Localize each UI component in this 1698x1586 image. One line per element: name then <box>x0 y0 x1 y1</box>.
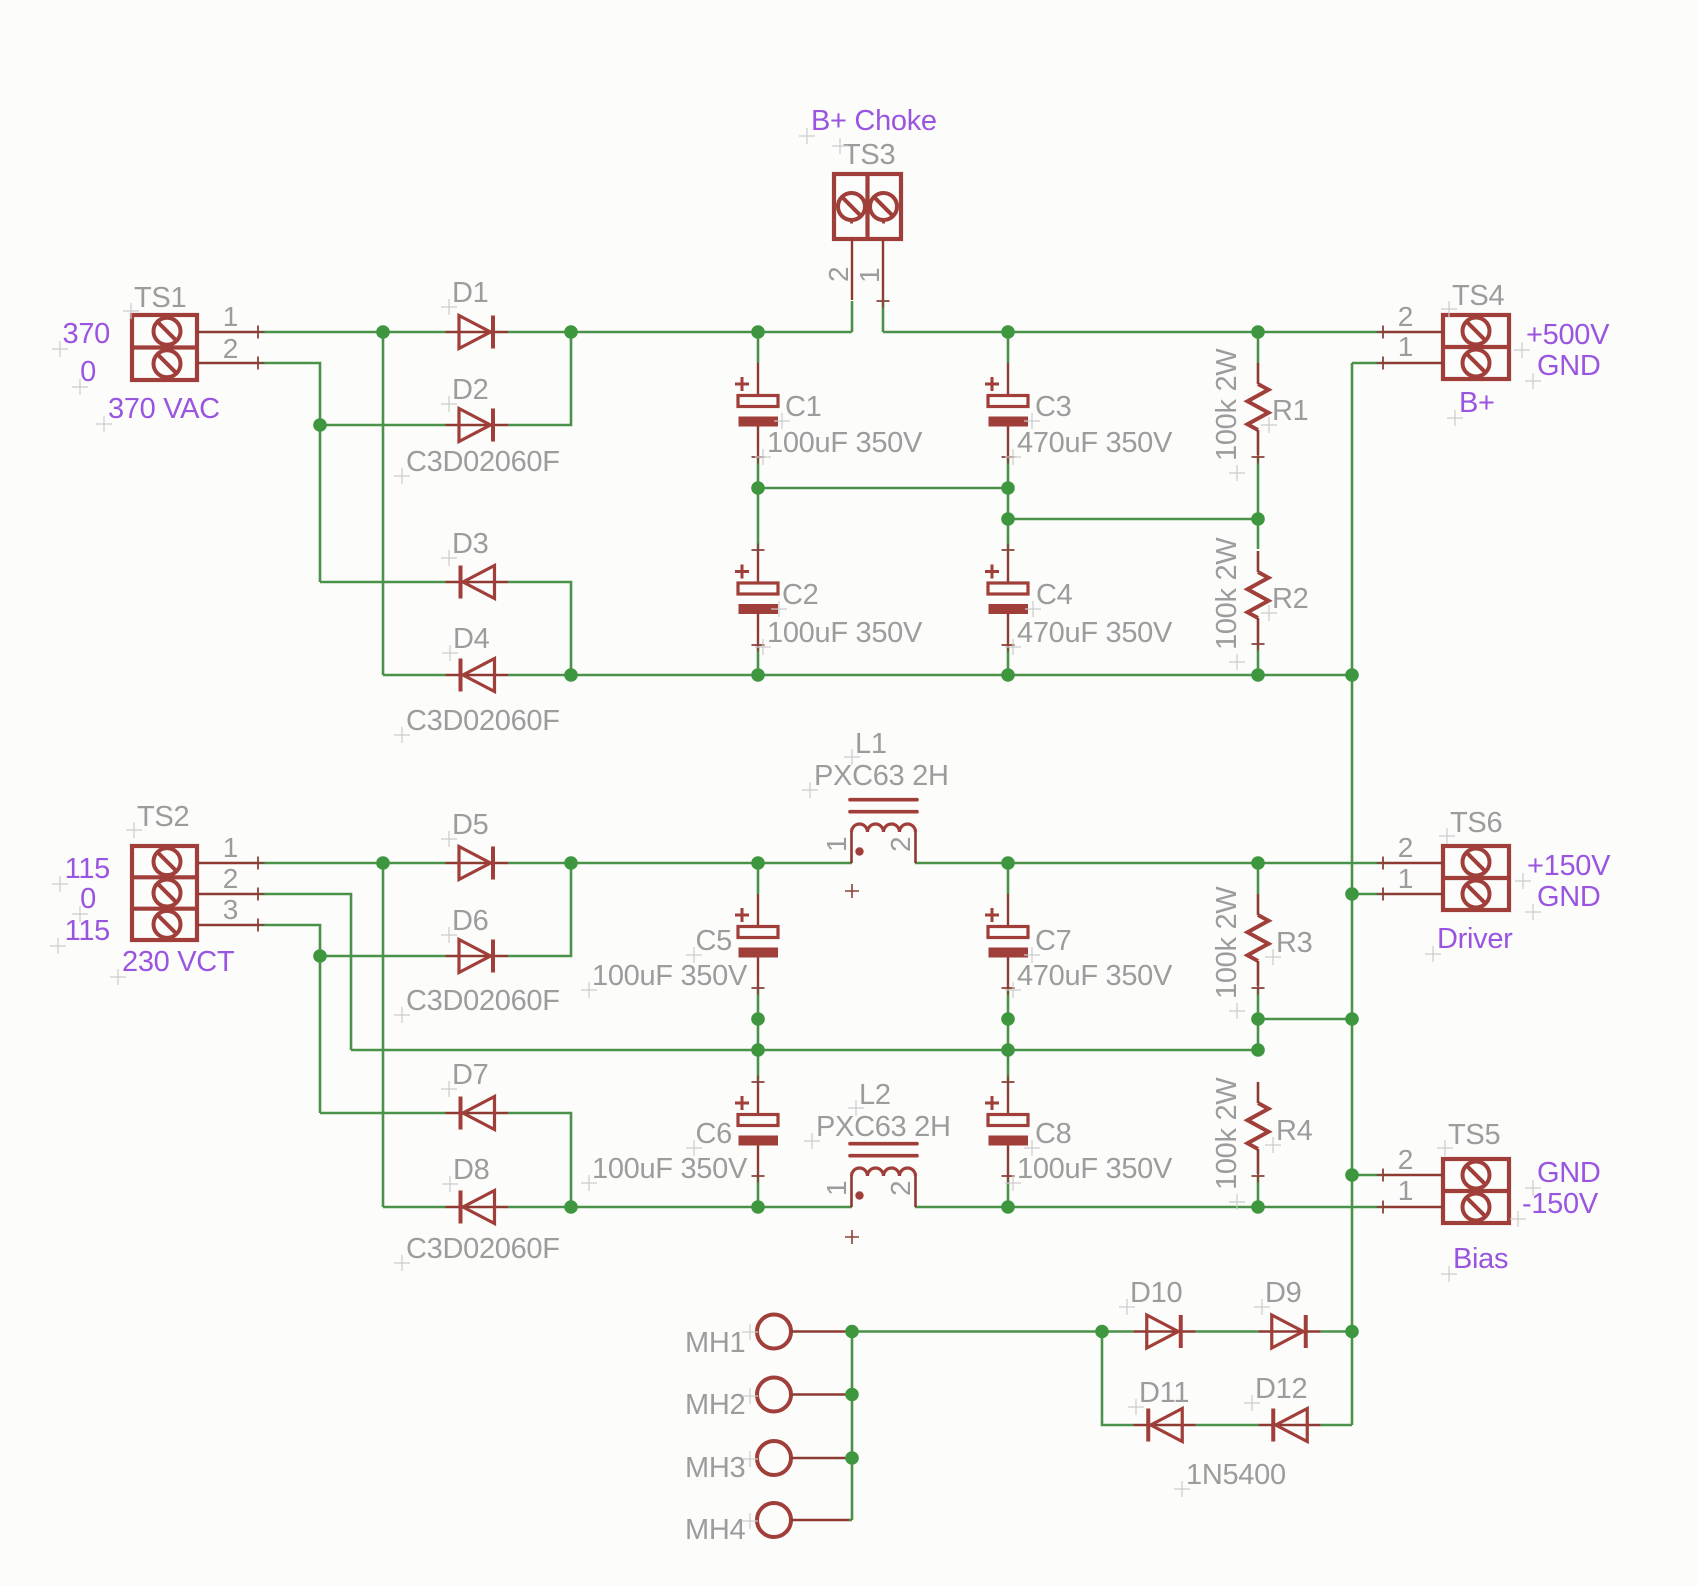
label +150V <box>1515 850 1611 889</box>
diode D3 <box>446 566 509 599</box>
wire net -150V lower rail left segment <box>508 1206 852 1209</box>
wire R3 bottom vertical <box>1257 988 1260 1050</box>
label C8 name <box>1024 1118 1071 1156</box>
junction GND row / C7-C8 <box>1001 1012 1015 1026</box>
svg-text:C7: C7 <box>1035 925 1071 957</box>
label R3 name <box>1265 927 1312 965</box>
svg-text:C3D02060F: C3D02060F <box>406 1233 560 1265</box>
wire C5 top lead <box>757 863 760 894</box>
origin cross L2 <box>845 1230 859 1244</box>
wire TS6 pin1 stub <box>1352 893 1383 896</box>
junction GND row / main vertical <box>1345 1012 1359 1026</box>
junction MH2 / bus <box>845 1388 859 1402</box>
label D5-D6 value C3D02060F <box>394 985 560 1023</box>
svg-text:0: 0 <box>80 883 96 915</box>
wire C5 bottom vertical <box>757 988 760 1082</box>
label R3 value 100k 2W <box>1211 886 1245 1019</box>
label C6 name <box>686 1118 732 1156</box>
label TS2 pin 3 <box>223 894 238 925</box>
terminal block TS4 <box>1377 315 1510 380</box>
junction MH1 / bus <box>845 1325 859 1339</box>
label R2 name <box>1261 583 1308 621</box>
junction lower rail / D8 <box>564 1200 578 1214</box>
label R4 name <box>1265 1115 1313 1153</box>
svg-text:L1: L1 <box>855 728 887 760</box>
wire R1 top lead <box>1257 332 1260 363</box>
wire C1 top lead <box>757 332 760 363</box>
label D12 name <box>1244 1373 1307 1411</box>
svg-text:B+ Choke: B+ Choke <box>811 105 937 137</box>
diode D5 <box>446 847 509 880</box>
svg-text:2: 2 <box>1398 301 1413 332</box>
svg-text:D1: D1 <box>452 277 488 309</box>
inductor L1 <box>850 800 917 863</box>
wire D8 row left stub <box>383 1206 446 1209</box>
capacitor C3 <box>985 363 1028 464</box>
wire net AC3 rail TS2 to D5 <box>258 862 446 865</box>
wire D12 to corner <box>1321 1424 1352 1427</box>
label D3 name <box>441 528 488 566</box>
junction middle rail / R3 <box>1251 856 1265 870</box>
label TS3 pin 2 <box>823 267 854 282</box>
wire C2 bottom lead <box>757 645 760 675</box>
svg-text:MH2: MH2 <box>685 1389 745 1421</box>
wire mid rail C3-R1 <box>1008 518 1258 521</box>
label D8 name <box>442 1154 489 1192</box>
label C4 value <box>1005 617 1173 655</box>
svg-text:D4: D4 <box>453 623 490 655</box>
svg-text:C8: C8 <box>1035 1118 1071 1150</box>
svg-text:D8: D8 <box>453 1154 489 1186</box>
label D3-D4 value C3D02060F <box>394 705 560 743</box>
wire net AC1 TS3 pin2 riser <box>851 301 854 332</box>
terminal block TS6 <box>1377 846 1510 911</box>
wire C3 top lead <box>1007 332 1010 363</box>
svg-text:TS2: TS2 <box>137 801 189 833</box>
label TS1 name <box>123 282 186 319</box>
label MH4 <box>685 1513 758 1546</box>
wire MH bus vertical <box>851 1332 854 1521</box>
svg-text:C3: C3 <box>1035 391 1071 423</box>
junction rail2 / C3-C4 <box>1001 512 1015 526</box>
label C4 name <box>1025 579 1073 617</box>
junction CT row / C5-C6 <box>751 1043 765 1057</box>
svg-text:2: 2 <box>885 837 916 852</box>
wire net -150V lower rail right segment <box>915 1206 1383 1209</box>
label TS5 pin 2 <box>1398 1144 1413 1175</box>
wire net AC3 rail D5 to L1 <box>508 862 852 865</box>
label 230 VCT <box>110 946 235 985</box>
svg-text:MH3: MH3 <box>685 1452 745 1484</box>
mounting hole MH3 <box>757 1441 849 1475</box>
svg-text:C3D02060F: C3D02060F <box>406 985 560 1017</box>
label D11 name <box>1128 1377 1189 1415</box>
wire C8 bottom lead <box>1007 1176 1010 1207</box>
terminal block TS5 <box>1377 1159 1510 1224</box>
svg-text:C4: C4 <box>1036 579 1073 611</box>
svg-text:TS1: TS1 <box>134 282 186 314</box>
label B+ Choke <box>799 105 937 144</box>
wire D6 cathode up to middle rail <box>508 863 571 956</box>
svg-text:B+: B+ <box>1459 387 1495 419</box>
junction middle rail / C7 <box>1001 856 1015 870</box>
junction bottom rail / GND vertical <box>1345 668 1359 682</box>
junction top rail / C3 <box>1001 325 1015 339</box>
svg-text:+500V: +500V <box>1526 319 1610 351</box>
label GND (TS6) <box>1525 881 1601 920</box>
wire R4 bottom lead <box>1257 1176 1260 1207</box>
terminal block TS1 <box>132 315 265 381</box>
diode D8 <box>446 1191 509 1224</box>
label D9 name <box>1254 1277 1301 1315</box>
junction middle rail / C5 <box>751 856 765 870</box>
wire C7 bottom vertical <box>1007 988 1010 1082</box>
junction AC2 / D2 anode <box>313 418 327 432</box>
junction GND vertical / TS6 pin1 <box>1345 887 1359 901</box>
svg-text:470uF 350V: 470uF 350V <box>1017 617 1173 649</box>
label C5 value <box>581 960 748 998</box>
svg-text:D9: D9 <box>1265 1277 1301 1309</box>
inductor L2 <box>850 1144 917 1207</box>
svg-text:R1: R1 <box>1272 395 1308 427</box>
junction top rail / AC1 vertical <box>376 325 390 339</box>
wire net AC4 to D7 cathode <box>320 1112 446 1115</box>
label TS5 name <box>1437 1119 1500 1156</box>
mounting hole MH2 <box>757 1378 849 1412</box>
wire C6 bottom lead <box>757 1176 760 1207</box>
label TS4 name <box>1441 280 1504 317</box>
diode D2 <box>446 409 509 442</box>
junction bottom rail / D4 <box>564 668 578 682</box>
junction AC4 / D6 anode <box>313 949 327 963</box>
label TS6 pin 1 <box>1398 863 1413 894</box>
svg-text:100k 2W: 100k 2W <box>1211 886 1243 999</box>
diode D4 <box>446 659 509 692</box>
wire net AC1 rail D1 to TS3 <box>508 331 852 334</box>
diode D12 <box>1258 1409 1321 1442</box>
svg-text:C6: C6 <box>696 1118 732 1150</box>
wire net AC1 vertical to D4 row <box>382 332 385 675</box>
label TS3 pin 1 <box>854 268 885 283</box>
label TS4 pin 2 <box>1398 301 1413 332</box>
label D7-D8 value C3D02060F <box>394 1233 560 1271</box>
junction mid rail / C3 <box>1001 481 1015 495</box>
label Driver <box>1425 923 1513 962</box>
junction mid rail / C1 <box>751 481 765 495</box>
svg-text:0: 0 <box>80 356 96 388</box>
wire net AC2 to D2 anode <box>320 424 446 427</box>
label C5 name <box>686 925 732 963</box>
label C3 value <box>1005 427 1173 465</box>
label C7 value <box>1005 960 1173 998</box>
svg-text:MH4: MH4 <box>685 1514 746 1546</box>
label L1 name <box>844 728 887 765</box>
svg-text:2: 2 <box>1398 1144 1413 1175</box>
svg-text:2: 2 <box>223 333 238 364</box>
svg-text:1N5400: 1N5400 <box>1186 1459 1286 1491</box>
svg-text:L2: L2 <box>859 1079 891 1111</box>
wire net B+ top rail right segment <box>883 331 1383 334</box>
svg-text:115: 115 <box>65 853 110 885</box>
label TS1 pin 1 <box>223 301 238 332</box>
label B+ <box>1447 387 1495 426</box>
label TS6 name <box>1439 807 1502 844</box>
junction MH3 / bus <box>845 1451 859 1465</box>
label TS5 pin 1 <box>1398 1175 1413 1206</box>
wire D10 to D9 <box>1196 1330 1259 1333</box>
label C2 name <box>771 579 818 617</box>
svg-text:+150V: +150V <box>1527 850 1611 882</box>
svg-text:1: 1 <box>1398 331 1413 362</box>
wire D11 to D12 <box>1196 1424 1259 1427</box>
diode D1 <box>446 316 509 349</box>
svg-text:D5: D5 <box>452 809 488 841</box>
label L2 value PXC63 2H <box>804 1111 951 1149</box>
svg-text:PXC63 2H: PXC63 2H <box>816 1111 951 1143</box>
svg-text:TS4: TS4 <box>1452 280 1504 312</box>
wire net B+ TS3 pin1 riser <box>882 301 885 332</box>
wire D4 row left stub <box>383 674 446 677</box>
label MH3 <box>685 1451 758 1484</box>
label TS2 pin 1 <box>223 832 238 863</box>
label L1 pin 1 <box>821 837 852 852</box>
junction MH1 row / bridge left <box>1095 1325 1109 1339</box>
origin cross L1 <box>845 884 859 898</box>
label 1N5400 <box>1174 1459 1286 1497</box>
svg-text:470uF 350V: 470uF 350V <box>1017 427 1173 459</box>
label TS2 pin 2 <box>223 863 238 894</box>
svg-text:2: 2 <box>823 267 854 282</box>
junction lower rail / C6 <box>751 1200 765 1214</box>
label Bias <box>1441 1243 1508 1282</box>
svg-text:1: 1 <box>821 1181 852 1196</box>
svg-text:100uF 350V: 100uF 350V <box>767 427 923 459</box>
label D4 name <box>442 623 490 661</box>
svg-text:230 VCT: 230 VCT <box>122 946 235 978</box>
wire net +150V middle rail right segment <box>915 862 1383 865</box>
svg-text:100k 2W: 100k 2W <box>1211 1077 1243 1190</box>
svg-text:TS3: TS3 <box>843 139 895 171</box>
label net 115 top <box>52 853 110 892</box>
junction GND row / R3 <box>1251 1012 1265 1026</box>
svg-text:D12: D12 <box>1255 1373 1307 1405</box>
svg-text:D3: D3 <box>452 528 488 560</box>
label C2 value <box>755 617 923 655</box>
label L2 pin 1 <box>821 1181 852 1196</box>
junction CT row / C7-C8 <box>1001 1043 1015 1057</box>
diode D10 <box>1133 1315 1196 1348</box>
wire D3 anode down to bottom rail <box>508 582 571 675</box>
capacitor C7 <box>985 894 1028 995</box>
terminal block TS2 <box>132 846 265 941</box>
label D6 name <box>441 905 488 943</box>
label L1 pin 2 <box>885 837 916 852</box>
wire mid rail C1-C3 <box>758 487 1008 490</box>
label R2 value 100k 2W <box>1211 537 1245 670</box>
label D10 name <box>1119 1277 1182 1315</box>
label TS4 pin 1 <box>1398 331 1413 362</box>
svg-text:D7: D7 <box>452 1059 488 1091</box>
svg-text:MH1: MH1 <box>685 1327 745 1359</box>
diode D9 <box>1258 1315 1321 1348</box>
label net 0 (TS1) <box>72 356 96 395</box>
svg-text:D6: D6 <box>452 905 488 937</box>
svg-text:470uF 350V: 470uF 350V <box>1017 960 1173 992</box>
junction bottom rail / R2 <box>1251 668 1265 682</box>
diode D7 <box>446 1097 509 1130</box>
label R1 name <box>1261 395 1308 433</box>
svg-text:TS6: TS6 <box>1450 807 1502 839</box>
wire D2 cathode up to top rail <box>508 332 571 425</box>
svg-text:100k 2W: 100k 2W <box>1211 537 1243 650</box>
svg-text:GND: GND <box>1537 881 1601 913</box>
label TS1 pin 2 <box>223 333 238 364</box>
label D7 name <box>441 1059 488 1097</box>
junction lower rail / R4 <box>1251 1200 1265 1214</box>
junction rail2 / R1-R2 <box>1251 512 1265 526</box>
svg-text:-150V: -150V <box>1522 1188 1599 1220</box>
capacitor C8 <box>985 1076 1028 1183</box>
svg-text:370 VAC: 370 VAC <box>108 393 220 425</box>
wire TS4 pin1 stub <box>1352 362 1383 365</box>
wire MH1 row to D10 <box>852 1330 1133 1333</box>
capacitor C5 <box>735 894 778 995</box>
label D1-D2 value C3D02060F <box>394 446 560 484</box>
mounting hole MH1 <box>757 1315 849 1349</box>
svg-text:C3D02060F: C3D02060F <box>406 446 560 478</box>
resistor R2 <box>1248 551 1269 651</box>
wire net CT row to R3/R4 junction <box>351 1049 1258 1052</box>
wire C4 bottom lead <box>1007 645 1010 675</box>
svg-text:D11: D11 <box>1139 1377 1189 1409</box>
wire D9 to GND vertical <box>1321 1330 1352 1333</box>
label GND (TS4) <box>1525 350 1601 389</box>
svg-text:Driver: Driver <box>1437 923 1513 955</box>
junction GND vertical / TS5 pin2 <box>1345 1168 1359 1182</box>
junction middle rail / D6 riser <box>564 856 578 870</box>
resistor R1 <box>1248 363 1269 464</box>
label C8 value <box>1005 1153 1173 1191</box>
wire net AC2 to D3 cathode <box>320 581 446 584</box>
wire R3 top lead <box>1257 863 1260 894</box>
wire R2 bottom lead <box>1257 644 1260 675</box>
label C6 value <box>581 1153 748 1191</box>
svg-text:3: 3 <box>223 894 238 925</box>
wire net AC1 rail TS1 to D1 <box>258 331 446 334</box>
diode D11 <box>1133 1409 1196 1442</box>
wire TS5 pin2 stub <box>1352 1174 1383 1177</box>
label L2 name <box>848 1079 891 1116</box>
svg-text:1: 1 <box>821 837 852 852</box>
junction top rail / D2 riser <box>564 325 578 339</box>
svg-text:D10: D10 <box>1130 1277 1182 1309</box>
label 370 VAC <box>96 393 220 432</box>
svg-text:C2: C2 <box>782 579 818 611</box>
label L1 value PXC63 2H <box>802 760 949 798</box>
label D1 name <box>441 277 488 315</box>
svg-text:1: 1 <box>1398 863 1413 894</box>
svg-text:100k 2W: 100k 2W <box>1211 348 1243 461</box>
label net 115 bottom <box>50 915 110 954</box>
wire GND row R3 to vertical <box>1258 1018 1352 1021</box>
wire C3 bottom vertical <box>1007 457 1010 550</box>
wire net AC4 to D6 anode <box>320 955 446 958</box>
label L2 pin 2 <box>885 1181 916 1196</box>
label TS2 name <box>126 801 189 838</box>
svg-text:GND: GND <box>1537 1157 1601 1189</box>
svg-text:GND: GND <box>1537 350 1601 382</box>
svg-text:TS5: TS5 <box>1448 1119 1500 1151</box>
wire net AC4 from TS2 pin3 <box>258 925 320 1113</box>
label D2 name <box>441 374 488 412</box>
wire net CT from TS2 pin2 <box>258 894 351 1050</box>
junction lower rail / C8 <box>1001 1200 1015 1214</box>
junction top rail / R1 <box>1251 325 1265 339</box>
svg-text:1: 1 <box>1398 1175 1413 1206</box>
label TS6 pin 2 <box>1398 832 1413 863</box>
junction bottom rail / C2 <box>751 668 765 682</box>
resistor R3 <box>1248 894 1269 995</box>
capacitor C2 <box>735 544 778 652</box>
label +500V <box>1514 319 1610 358</box>
diode D6 <box>446 940 509 973</box>
svg-text:C1: C1 <box>785 391 821 423</box>
svg-text:115: 115 <box>65 915 110 947</box>
svg-text:Bias: Bias <box>1453 1243 1508 1275</box>
wire C1 bottom to mid rail <box>757 457 760 488</box>
wire bridge left vertical <box>1102 1332 1133 1426</box>
wire D7 anode down to lower rail <box>508 1113 571 1207</box>
wire net AC2 from TS1 pin2 <box>258 363 320 582</box>
capacitor C1 <box>735 363 778 464</box>
svg-text:100uF 350V: 100uF 350V <box>767 617 923 649</box>
wire net AC3 vertical to D8 row <box>382 863 385 1207</box>
label R4 value 100k 2W <box>1211 1077 1245 1210</box>
capacitor C4 <box>985 544 1028 652</box>
svg-text:1: 1 <box>854 268 885 283</box>
junction GND vertical / D9 <box>1345 1325 1359 1339</box>
label C1 name <box>774 391 821 429</box>
resistor R4 <box>1248 1082 1269 1183</box>
label C1 value <box>755 427 923 465</box>
svg-text:1: 1 <box>223 832 238 863</box>
svg-text:100uF 350V: 100uF 350V <box>592 1153 748 1185</box>
wire R1 bottom vertical <box>1257 457 1260 549</box>
junction GND row / C5-C6 <box>751 1012 765 1026</box>
junction top rail / C1 <box>751 325 765 339</box>
label C7 name <box>1024 925 1071 963</box>
svg-text:100uF 350V: 100uF 350V <box>1017 1153 1173 1185</box>
label net 0 (TS2) <box>72 883 96 922</box>
wire net GND main vertical <box>1351 363 1354 1425</box>
capacitor C6 <box>735 1076 778 1183</box>
wire C2 top lead <box>757 488 760 550</box>
wire C7 top lead <box>1007 863 1010 894</box>
svg-text:C3D02060F: C3D02060F <box>406 705 560 737</box>
svg-text:PXC63 2H: PXC63 2H <box>814 760 949 792</box>
label -150V <box>1510 1188 1599 1227</box>
svg-text:C5: C5 <box>696 925 732 957</box>
svg-text:2: 2 <box>885 1181 916 1196</box>
label TS3 name <box>832 138 895 171</box>
svg-text:1: 1 <box>223 301 238 332</box>
svg-text:2: 2 <box>1398 832 1413 863</box>
label MH1 <box>685 1324 758 1359</box>
svg-text:370: 370 <box>63 318 111 350</box>
svg-text:100uF 350V: 100uF 350V <box>592 960 748 992</box>
junction CT row / R3-R4 <box>1251 1043 1265 1057</box>
svg-text:R3: R3 <box>1276 927 1312 959</box>
